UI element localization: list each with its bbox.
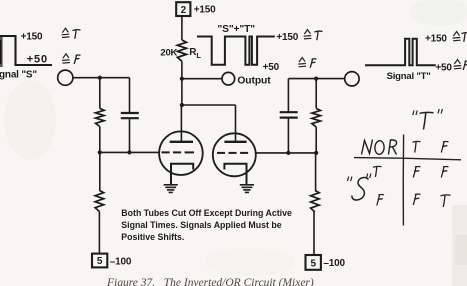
signal S waveform	[0, 36, 52, 67]
wire: box 2 to RL	[181, 16, 183, 40]
output waveform S+T	[197, 37, 275, 65]
ground (V1 cathode)	[164, 185, 178, 193]
svg-text:Signal Times. Signals Applied: Signal Times. Signals Applied Must be	[121, 220, 281, 230]
resistor R5 (left grid return to -100)	[95, 190, 104, 211]
wire: output node to output terminal	[182, 78, 222, 80]
terminal box 5 (left -100 supply)	[92, 254, 107, 268]
junction dot grid node left	[98, 150, 102, 154]
V2 grid (dashed)	[217, 152, 248, 154]
ground (V2 cathode)	[240, 185, 254, 193]
truth table: cell S=F,T=F -> T	[441, 195, 451, 207]
V1 plate	[170, 141, 193, 143]
truth table: row variable "S"	[348, 174, 371, 201]
wire: R4 to grid node	[315, 127, 317, 153]
handwritten corresponds-to F (signal T)	[454, 60, 467, 71]
wire: down to resistor R3	[99, 78, 101, 109]
svg-text:2: 2	[181, 5, 187, 16]
wire: C1 to grid node	[129, 119, 131, 152]
truth table: column variable "T"	[413, 109, 443, 130]
resistor R3 (left grid series R)	[96, 108, 105, 126]
junction dot grid node right	[314, 151, 318, 155]
resistor RL 20K (plate load)	[177, 40, 186, 61]
truth table: cell S=F,T=T -> F	[413, 194, 420, 205]
handwritten corresponds-to T (output wave)	[304, 30, 323, 41]
svg-text:Signal "T": Signal "T"	[387, 71, 431, 82]
svg-text:+50: +50	[435, 63, 452, 74]
svg-text:–100: –100	[110, 256, 132, 267]
truth table: cell S=T,T=F -> F	[441, 166, 448, 177]
input terminal circle (signal S)	[58, 70, 73, 85]
V1 grid (dashed)	[162, 151, 195, 153]
svg-text:5: 5	[97, 256, 103, 267]
svg-text:Positive Shifts.: Positive Shifts.	[121, 232, 184, 242]
wire: T input to grid network	[288, 78, 344, 80]
wire: R5 to -100 supply	[98, 212, 100, 254]
handwritten "corresponds to T" symbol (left)	[62, 28, 81, 39]
wire: R3 to grid node	[99, 127, 101, 153]
wire: S input to grid network	[73, 77, 130, 79]
wire: R6 to -100 supply	[313, 212, 315, 255]
truth table: row label T (S true)	[373, 166, 382, 177]
capacitor C1 (left speed-up cap)	[121, 112, 139, 114]
V2 cathode	[224, 164, 246, 185]
svg-text:+50: +50	[27, 53, 48, 65]
terminal box 5 (right -100 supply)	[306, 255, 321, 270]
capacitor C2 (right speed-up cap)	[280, 111, 298, 113]
V2 plate	[224, 141, 246, 143]
truth table: header F (T false col)	[441, 141, 448, 152]
node: right grid node wire	[256, 152, 316, 154]
wire: right input down to capacitor C2	[287, 79, 289, 112]
wire: RL to output node	[181, 61, 183, 105]
wire: down to capacitor C1	[129, 78, 131, 113]
svg-text:+150: +150	[425, 34, 447, 45]
svg-text:"S"+"T": "S"+"T"	[217, 24, 255, 35]
svg-text:+50: +50	[263, 62, 280, 73]
wire: plate rail (common plate bus)	[182, 104, 236, 106]
terminal box 2 (+150 supply)	[176, 2, 190, 16]
handwritten corresponds-to F (output wave)	[298, 58, 316, 68]
tube V2 envelope (right triode)	[213, 133, 256, 176]
svg-text:20K: 20K	[160, 47, 177, 58]
node: left grid node wire	[99, 151, 160, 153]
truth table: cell S=T,T=T -> F	[413, 166, 420, 177]
svg-text:Figure 37. The Inverted/OR C: Figure 37. The Inverted/OR Circuit (Mixe…	[106, 277, 314, 286]
svg-text:Output: Output	[237, 76, 271, 87]
junction dot at R3 top branch	[98, 76, 102, 80]
svg-text:gnal "S": gnal "S"	[0, 70, 37, 81]
svg-text:+150: +150	[21, 32, 43, 43]
junction dot plate rail	[180, 103, 184, 107]
truth table: NOR label	[362, 140, 397, 155]
resistor R4 (right grid series R)	[312, 109, 321, 127]
junction dot C2 bottom	[286, 151, 290, 155]
svg-text:+150: +150	[276, 32, 298, 43]
wire: rail to V2 plate	[235, 105, 237, 141]
truth table: vertical rule	[402, 135, 404, 226]
tube V1 envelope (left triode)	[159, 131, 203, 175]
truth table: header T (T true col)	[413, 141, 421, 152]
svg-text:5: 5	[311, 258, 317, 269]
junction dot at R4 top branch	[314, 77, 318, 81]
svg-text:L: L	[196, 51, 201, 60]
signal T waveform	[365, 39, 436, 66]
svg-text:+150: +150	[194, 5, 216, 16]
resistor R6 (right grid return to -100)	[311, 190, 320, 212]
wire: down to resistor R4	[315, 79, 317, 109]
handwritten corresponds-to T (signal T)	[453, 32, 467, 42]
V1 cathode	[171, 164, 193, 185]
wire: C2 to grid node	[287, 119, 289, 153]
truth table: horizontal rule	[354, 158, 461, 160]
input terminal circle (signal T)	[345, 72, 359, 86]
wire: grid node down to R6	[315, 153, 317, 191]
junction dot C1 bottom	[127, 150, 131, 154]
handwritten "corresponds to F" symbol (left)	[62, 54, 80, 64]
wire: grid node down to R5	[99, 152, 101, 190]
note: circuit operation text	[121, 208, 292, 242]
truth table: row label F (S false)	[377, 194, 384, 205]
output terminal circle	[222, 72, 235, 85]
svg-text:–100: –100	[323, 258, 345, 269]
junction dot output node	[180, 77, 184, 81]
wire: rail to V1 plate	[180, 105, 182, 141]
svg-text:Both Tubes Cut Off Except Duri: Both Tubes Cut Off Except During Active	[121, 208, 292, 218]
